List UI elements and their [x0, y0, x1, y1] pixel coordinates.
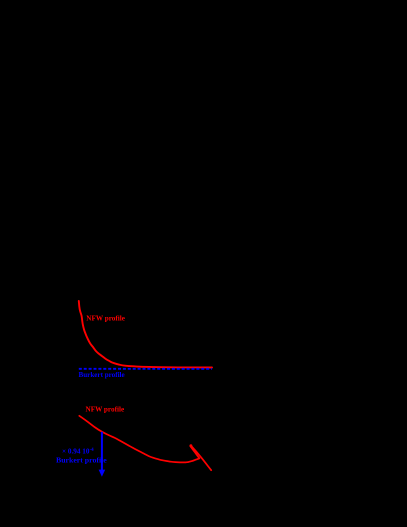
blue arrow head — [99, 470, 106, 477]
svg-text:Burkert profile: Burkert profile — [79, 371, 125, 379]
svg-text:Burkert profile: Burkert profile — [56, 456, 107, 465]
Burkert dashed line (blue) — [79, 368, 212, 370]
blue arrow shaft — [101, 432, 103, 471]
top NFW curve (red) — [79, 301, 212, 368]
svg-text:NFW profile: NFW profile — [86, 315, 125, 323]
bottom NFW curve (red) with hook end — [79, 416, 211, 470]
svg-text:× 0.94 10-4: × 0.94 10-4 — [62, 448, 94, 456]
hook blob (red) — [189, 444, 192, 447]
svg-text:NFW profile: NFW profile — [86, 405, 125, 413]
